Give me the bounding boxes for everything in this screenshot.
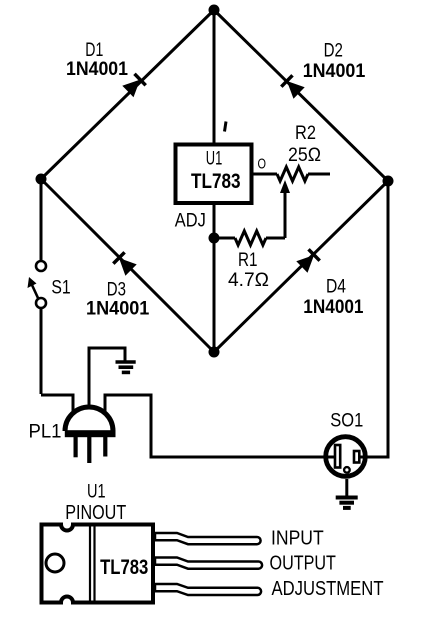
svg-text:R2: R2 xyxy=(295,123,316,144)
svg-text:D2: D2 xyxy=(324,41,343,62)
svg-text:S1: S1 xyxy=(51,278,70,299)
svg-text:4.7Ω: 4.7Ω xyxy=(228,270,269,291)
svg-text:TL783: TL783 xyxy=(191,170,241,193)
svg-text:25Ω: 25Ω xyxy=(288,145,321,166)
svg-text:R1: R1 xyxy=(238,250,258,271)
svg-text:ADJUSTMENT: ADJUSTMENT xyxy=(272,578,384,600)
svg-text:O: O xyxy=(257,156,266,173)
svg-text:OUTPUT: OUTPUT xyxy=(270,553,336,575)
svg-text:U1: U1 xyxy=(206,149,223,170)
svg-text:1N4001: 1N4001 xyxy=(303,61,366,82)
svg-text:INPUT: INPUT xyxy=(271,528,324,550)
svg-text:D1: D1 xyxy=(85,40,103,61)
svg-text:U1: U1 xyxy=(87,482,106,503)
svg-text:D4: D4 xyxy=(326,277,346,298)
svg-text:1N4001: 1N4001 xyxy=(303,297,364,318)
svg-text:PINOUT: PINOUT xyxy=(65,502,126,524)
svg-text:PL1: PL1 xyxy=(29,422,62,443)
svg-text:ADJ: ADJ xyxy=(175,211,206,232)
svg-text:1N4001: 1N4001 xyxy=(86,299,150,320)
svg-text:1N4001: 1N4001 xyxy=(66,59,128,80)
svg-text:SO1: SO1 xyxy=(330,411,363,432)
svg-text:TL783: TL783 xyxy=(100,556,148,579)
svg-text:D3: D3 xyxy=(107,280,126,301)
